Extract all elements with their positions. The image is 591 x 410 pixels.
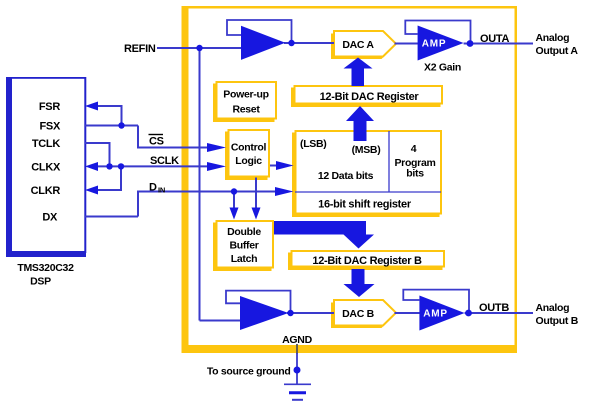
svg-text:X2 Gain: X2 Gain [424, 62, 461, 74]
ground symbol [284, 384, 311, 400]
svg-text:Output B: Output B [536, 315, 579, 327]
svg-text:Output A: Output A [536, 45, 579, 57]
DAC B converter [331, 300, 396, 328]
op-amp buffer B [240, 296, 289, 330]
wire DAC B to AMP B [395, 312, 421, 314]
wire buffer A output [284, 42, 334, 44]
wire buffer A feedback [227, 20, 292, 43]
svg-text:12-Bit DAC Register: 12-Bit DAC Register [320, 91, 420, 103]
op-amp buffer A [241, 26, 285, 60]
bus arrow DAC register B to DAC B [344, 269, 375, 297]
svg-text:TCLK: TCLK [32, 138, 60, 150]
svg-text:16-bit shift register: 16-bit shift register [318, 199, 412, 211]
shift register labels [300, 138, 436, 211]
svg-text:TMS320C32: TMS320C32 [17, 262, 74, 274]
label AGND [282, 334, 312, 346]
svg-text:Double: Double [227, 226, 261, 238]
svg-text:IN: IN [158, 186, 165, 195]
node AMP A output [467, 40, 474, 47]
svg-text:FSR: FSR [39, 101, 60, 113]
wire FSX output [85, 125, 138, 127]
wire DX output [85, 216, 138, 218]
svg-text:bits: bits [406, 168, 424, 180]
bus arrow shift register to DAC register A [346, 106, 374, 141]
node SCLK junction 2 [118, 163, 124, 169]
wire AMP A feedback [405, 21, 470, 44]
wire DIN line [138, 192, 276, 217]
label Analog Output B [536, 302, 579, 327]
label Control Logic [231, 142, 267, 168]
arrowhead DIN into shift register [275, 187, 294, 196]
label Power-up Reset [223, 89, 268, 116]
label 12-Bit DAC Register [320, 91, 420, 103]
power-up reset box [213, 82, 276, 122]
label CS active low [149, 135, 164, 148]
svg-text:Logic: Logic [235, 155, 262, 167]
wire control logic to shift register [270, 165, 277, 167]
wire TCLK to SCLK junction [85, 143, 110, 166]
svg-text:Latch: Latch [231, 253, 258, 265]
op-amp AMP B X2 gain [419, 296, 464, 331]
arrowhead into CLKX [85, 162, 98, 171]
svg-text:OUTA: OUTA [480, 33, 510, 45]
arrowhead into FSR [85, 102, 98, 111]
svg-text:AGND: AGND [282, 334, 312, 346]
wire AGND to ground [296, 353, 298, 384]
svg-text:Power-up: Power-up [223, 89, 268, 101]
control logic box [225, 130, 269, 180]
16-bit shift register box [292, 131, 441, 217]
wire CS from FSX [138, 126, 208, 148]
label X2 Gain [424, 62, 461, 74]
svg-text:AMP: AMP [423, 309, 448, 320]
svg-text:Analog: Analog [536, 302, 570, 314]
wire FSR from FSX junction [98, 106, 122, 126]
svg-text:12-Bit DAC Register B: 12-Bit DAC Register B [312, 255, 422, 267]
svg-text:D: D [149, 182, 157, 194]
DSP pin labels FSR FSX TCLK CLKX CLKR DX [31, 101, 61, 224]
label REFIN [124, 43, 156, 55]
wire AMP B feedback [403, 290, 469, 313]
svg-text:DX: DX [42, 212, 58, 224]
wire DIN node to latch [233, 192, 235, 209]
wire CLKR from SCLK junction [97, 167, 121, 190]
node AMP B output [465, 310, 472, 317]
svg-text:Analog: Analog [536, 32, 570, 44]
svg-text:CLKX: CLKX [31, 162, 61, 174]
svg-text:(LSB): (LSB) [300, 138, 327, 150]
node AGND ground [294, 367, 301, 374]
svg-text:(MSB): (MSB) [352, 144, 381, 156]
svg-text:12 Data bits: 12 Data bits [318, 170, 374, 182]
label DIN [149, 182, 165, 195]
wire REFIN vertical rail [199, 48, 201, 321]
node SCLK junction 1 [106, 163, 112, 169]
svg-text:To source ground: To source ground [207, 366, 291, 378]
wire control logic to latch [255, 178, 257, 209]
arrowhead control logic to shift register [276, 161, 294, 170]
svg-text:FSX: FSX [40, 121, 61, 133]
bus arrow DAC register A to DAC A [344, 58, 373, 87]
wire buffer B feedback [226, 291, 291, 313]
label OUTA [480, 33, 510, 45]
TMS320C32 DSP box [6, 77, 86, 257]
wire REFIN input [157, 47, 241, 49]
arrowhead into CLKR [85, 186, 98, 195]
svg-text:CLKR: CLKR [31, 185, 61, 197]
label 12-Bit DAC Register B [312, 255, 422, 267]
DSP label TMS320C32 DSP [17, 262, 74, 288]
svg-text:REFIN: REFIN [124, 43, 156, 55]
node buffer A output [288, 40, 294, 46]
label To source ground [207, 366, 291, 378]
wire SCLK line [97, 165, 208, 167]
node buffer B output [287, 310, 293, 316]
svg-text:OUTB: OUTB [479, 302, 509, 314]
wire buffer B input [200, 320, 242, 322]
label Double Buffer Latch [227, 226, 261, 265]
svg-text:SCLK: SCLK [150, 155, 179, 167]
svg-text:Buffer: Buffer [229, 240, 258, 252]
svg-text:AMP: AMP [422, 39, 447, 50]
label Analog Output A [536, 32, 579, 57]
svg-text:DAC A: DAC A [342, 39, 374, 51]
DAC chip outer box U1 [182, 6, 518, 353]
node FSX junction [118, 122, 124, 128]
wire DAC A to AMP A [395, 43, 419, 45]
arrowhead SCLK into control logic [207, 162, 226, 171]
double buffer latch box [213, 221, 273, 271]
svg-text:DAC B: DAC B [342, 308, 374, 320]
node DIN junction [231, 188, 237, 194]
op-amp AMP A X2 gain [418, 26, 464, 61]
wire AMP B to OUTB [465, 312, 533, 314]
wire buffer B output [287, 312, 334, 314]
svg-text:4: 4 [411, 143, 417, 155]
DAC A converter [331, 31, 396, 59]
arrowhead control logic to latch [252, 208, 261, 220]
arrowhead CS into control logic [207, 143, 226, 152]
bus bar latch to register B arrow [274, 221, 374, 249]
svg-text:DSP: DSP [30, 276, 51, 288]
12-bit DAC register A box [291, 86, 442, 107]
label OUTB [479, 302, 509, 314]
wire AGND through border [296, 344, 298, 354]
svg-text:CS: CS [149, 136, 164, 148]
svg-text:Control: Control [231, 142, 267, 154]
wire AMP A to OUTA [464, 43, 533, 45]
node REFIN junction [196, 45, 202, 51]
12-bit DAC register B box [288, 251, 444, 270]
svg-text:Reset: Reset [232, 104, 260, 116]
label SCLK [150, 155, 179, 167]
arrowhead DIN to latch [230, 208, 239, 220]
